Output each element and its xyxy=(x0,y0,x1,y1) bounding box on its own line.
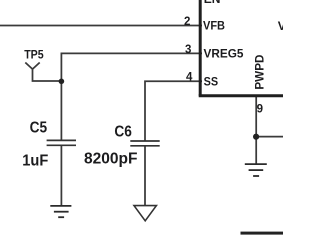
svg-text:3: 3 xyxy=(185,44,191,56)
svg-text:VIN: VIN xyxy=(278,19,283,33)
svg-text:PWPD: PWPD xyxy=(253,54,267,89)
svg-text:EN: EN xyxy=(204,0,221,6)
svg-text:C6: C6 xyxy=(114,124,132,141)
svg-text:8200pF: 8200pF xyxy=(84,151,138,168)
svg-text:9: 9 xyxy=(257,104,263,116)
svg-text:VFB: VFB xyxy=(203,19,225,33)
svg-text:VREG5: VREG5 xyxy=(204,47,244,61)
svg-text:1uF: 1uF xyxy=(22,153,48,170)
svg-text:C5: C5 xyxy=(30,120,48,137)
svg-text:TP5: TP5 xyxy=(24,48,44,62)
svg-text:4: 4 xyxy=(186,72,193,84)
svg-text:SS: SS xyxy=(204,74,219,88)
svg-text:2: 2 xyxy=(184,16,190,28)
